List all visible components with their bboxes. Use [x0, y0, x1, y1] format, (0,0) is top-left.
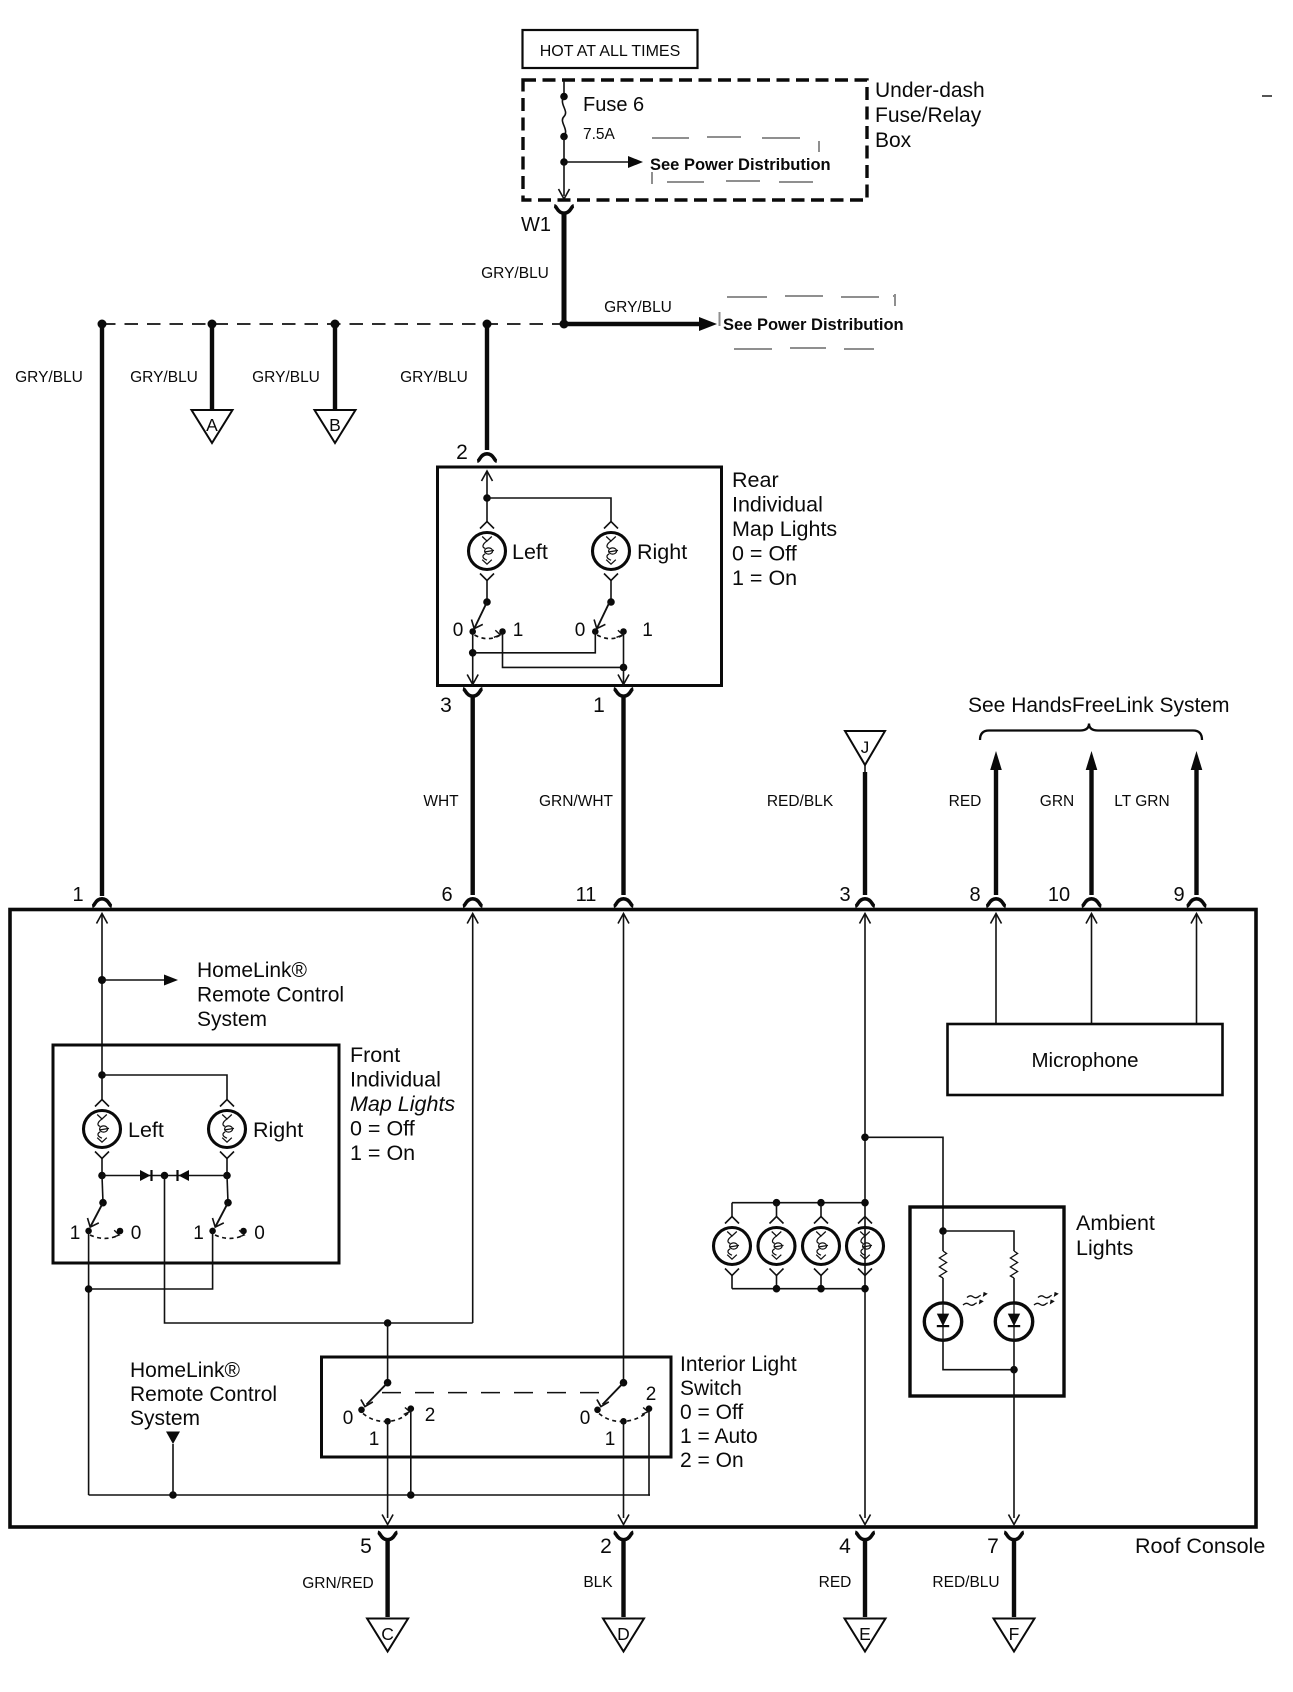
- svg-text:11: 11: [576, 884, 597, 906]
- svg-text:10: 10: [1048, 884, 1070, 906]
- node: [817, 1199, 825, 1207]
- wire GRN/WHT: [539, 696, 624, 895]
- svg-text:Microphone: Microphone: [1031, 1049, 1138, 1072]
- svg-text:LT GRN: LT GRN: [1114, 793, 1169, 810]
- scan remnants gray dashed box: [720, 294, 897, 349]
- connector J: [845, 731, 885, 765]
- pin 3 entry arrow: [860, 914, 871, 924]
- svg-text:RED/BLK: RED/BLK: [767, 793, 834, 810]
- connector B: [315, 410, 356, 443]
- svg-text:2: 2: [425, 1405, 436, 1426]
- svg-text:J: J: [861, 738, 870, 757]
- pin 7 exit arrow: [1009, 1515, 1020, 1525]
- lamp front left: [84, 1100, 121, 1159]
- lamp cluster bulb 2: [758, 1217, 795, 1276]
- svg-text:GRN/RED: GRN/RED: [302, 1575, 373, 1592]
- svg-text:C: C: [381, 1624, 394, 1644]
- lamp front right: [209, 1100, 246, 1159]
- connector pin 10 roof console: [1048, 884, 1101, 906]
- connector pin 11 roof console: [576, 884, 634, 906]
- node: [817, 1285, 825, 1293]
- svg-text:RED: RED: [949, 793, 982, 810]
- ambient lights box: [910, 1207, 1064, 1396]
- svg-text:GRY/BLU: GRY/BLU: [400, 369, 468, 386]
- svg-text:1: 1: [72, 884, 83, 906]
- wire off contacts to pin 3: [472, 632, 474, 685]
- wire pin6 riser: [472, 914, 474, 1324]
- wire left contact 2 to homelink bus: [410, 1409, 412, 1495]
- svg-text:Roof Console: Roof Console: [1135, 1534, 1265, 1558]
- wire pin8 to microphone: [995, 914, 997, 1025]
- svg-text:HomeLink®: HomeLink®: [197, 959, 308, 982]
- pin 11 entry arrow: [618, 914, 629, 924]
- svg-text:6: 6: [441, 884, 452, 906]
- pin 1 entry arrow: [97, 914, 108, 924]
- wire from node down to left switch pivot: [387, 1323, 389, 1383]
- wire stub: [731, 1276, 733, 1289]
- svg-text:1: 1: [70, 1223, 81, 1244]
- wire RED: [819, 1540, 865, 1617]
- wire front-left 1 contact down: [88, 1231, 90, 1495]
- pin 6 entry arrow: [467, 914, 478, 924]
- wire GRY/BLU drop 1: [15, 324, 102, 896]
- wire homelink bus: [89, 1494, 650, 1496]
- svg-text:1: 1: [605, 1429, 616, 1450]
- wire diode center down and over to pin6 riser: [165, 1176, 473, 1324]
- node: [161, 1172, 169, 1180]
- pin 9 entry arrow: [1191, 914, 1202, 924]
- svg-text:1: 1: [593, 694, 605, 717]
- connector C: [367, 1619, 408, 1652]
- pin 5 exit arrow: [382, 1515, 393, 1525]
- node: [483, 494, 491, 502]
- svg-text:0 = Off: 0 = Off: [680, 1401, 743, 1424]
- wire GRN/RED: [302, 1540, 387, 1617]
- wire: [563, 81, 565, 97]
- svg-text:RED/BLU: RED/BLU: [932, 1574, 999, 1591]
- connector pin 9 roof console: [1173, 884, 1206, 906]
- node: [861, 1134, 869, 1142]
- wire BLK: [583, 1540, 623, 1617]
- wire RED/BLK: [767, 765, 865, 895]
- switch interior left arm: [361, 1383, 388, 1407]
- wire: [563, 162, 565, 196]
- LED left emission arrows: [963, 1292, 988, 1305]
- wire on contacts to pin 1: [503, 632, 624, 668]
- node: [560, 158, 568, 166]
- svg-text:W1: W1: [521, 214, 551, 236]
- svg-text:2 = On: 2 = On: [680, 1449, 744, 1472]
- wire pin11 riser: [623, 914, 625, 1383]
- svg-text:2: 2: [456, 441, 468, 464]
- resistor left: [939, 1251, 946, 1278]
- svg-text:GRY/BLU: GRY/BLU: [604, 299, 672, 316]
- connector E: [845, 1619, 886, 1652]
- svg-text:See HandsFreeLink System: See HandsFreeLink System: [968, 694, 1229, 717]
- svg-text:1 = Auto: 1 = Auto: [680, 1425, 758, 1448]
- node: [773, 1199, 781, 1207]
- svg-text:0: 0: [254, 1223, 265, 1244]
- connector pin 8 roof console: [969, 884, 1005, 906]
- wire RED with up arrow: [949, 751, 1002, 895]
- svg-text:0 = Off: 0 = Off: [350, 1117, 415, 1141]
- svg-text:1 = On: 1 = On: [350, 1141, 415, 1165]
- pin 4 exit arrow: [860, 1515, 871, 1525]
- svg-text:B: B: [329, 415, 341, 435]
- under-dash fuse/relay box: [523, 80, 867, 200]
- wire: [610, 581, 612, 603]
- pin 3 exit arrow: [467, 675, 478, 685]
- arrow to homelink remote control system: [102, 975, 178, 986]
- pin 2 exit arrow: [618, 1515, 629, 1525]
- dashed gang line between switches: [382, 1392, 599, 1394]
- switch interior left pivot: [384, 1379, 392, 1387]
- svg-text:0: 0: [343, 1408, 354, 1429]
- dashed bus wire GRY/BLU: [102, 323, 564, 325]
- svg-text:8: 8: [969, 884, 980, 906]
- node: [939, 1227, 947, 1235]
- switch front right arm: [213, 1176, 232, 1228]
- svg-text:0: 0: [131, 1223, 142, 1244]
- svg-text:RED: RED: [819, 1574, 852, 1591]
- svg-text:Fuse/Relay: Fuse/Relay: [875, 104, 982, 127]
- node: [861, 1199, 869, 1207]
- node: [331, 320, 340, 329]
- svg-text:Map Lights: Map Lights: [732, 517, 837, 541]
- resistor right: [1010, 1251, 1017, 1278]
- node: [483, 598, 491, 606]
- wire: [473, 632, 596, 653]
- wire diode bus: [102, 1175, 227, 1177]
- microphone box: [948, 1024, 1223, 1095]
- svg-text:4: 4: [839, 1535, 851, 1558]
- svg-text:Left: Left: [512, 540, 548, 564]
- pin 2 entry arrow: [482, 471, 493, 481]
- connector pin 1 roof console: [72, 884, 111, 906]
- svg-text:3: 3: [440, 694, 452, 717]
- wire LT GRN with up arrow: [1114, 751, 1202, 895]
- lamp rear left: [469, 522, 506, 581]
- svg-text:0 = Off: 0 = Off: [732, 542, 797, 566]
- stray scan mark top right: [1262, 95, 1272, 97]
- label Under-dash Fuse/Relay Box: [875, 79, 985, 152]
- svg-text:GRY/BLU: GRY/BLU: [481, 265, 549, 282]
- svg-text:Remote Control: Remote Control: [130, 1383, 277, 1406]
- svg-text:HomeLink®: HomeLink®: [130, 1359, 241, 1382]
- switch rear right contacts: [575, 620, 653, 641]
- wire branch to ambient lights: [865, 1137, 943, 1231]
- svg-text:Front: Front: [350, 1043, 400, 1067]
- label ambient lights: [1076, 1211, 1155, 1260]
- interior light switch box: [322, 1357, 672, 1457]
- wire: [226, 1159, 228, 1176]
- lamp cluster bulb 1: [714, 1217, 751, 1276]
- switch interior left contacts: [343, 1405, 436, 1450]
- svg-text:0: 0: [453, 620, 464, 641]
- front individual map lights box: [53, 1045, 339, 1263]
- wire stub: [776, 1203, 778, 1217]
- node: [98, 1172, 106, 1180]
- node: [169, 1491, 177, 1499]
- svg-text:Rear: Rear: [732, 468, 779, 492]
- wire: [563, 137, 565, 163]
- fuse F6 element: [562, 97, 565, 137]
- connector pin 6 roof console: [441, 884, 482, 906]
- roof console box: [10, 910, 1256, 1528]
- svg-text:E: E: [859, 1624, 871, 1644]
- wire: [487, 498, 611, 522]
- svg-text:See Power Distribution: See Power Distribution: [723, 316, 904, 334]
- LED right emission arrows: [1034, 1292, 1059, 1305]
- wire: [942, 1231, 944, 1251]
- wire stub: [820, 1276, 822, 1289]
- wire pin10 to microphone: [1091, 914, 1093, 1025]
- svg-text:1: 1: [642, 620, 653, 641]
- wire GRN with up arrow: [1040, 751, 1098, 895]
- svg-text:Ambient: Ambient: [1076, 1211, 1155, 1235]
- svg-text:0: 0: [580, 1408, 591, 1429]
- node: [407, 1491, 415, 1499]
- pin 8 entry arrow: [991, 914, 1002, 924]
- switch rear right arm: [594, 602, 610, 629]
- svg-text:WHT: WHT: [423, 793, 459, 810]
- diode D1: [140, 1170, 152, 1181]
- wire LED return to pin 7: [1013, 1340, 1015, 1518]
- diode D2: [178, 1170, 190, 1181]
- wire tie of 1 contacts: [89, 1231, 213, 1289]
- connector pin 3 roof console: [839, 884, 874, 906]
- svg-text:7.5A: 7.5A: [583, 126, 616, 143]
- pin 1 exit arrow: [618, 675, 629, 685]
- svg-text:HOT AT ALL TIMES: HOT AT ALL TIMES: [540, 43, 681, 60]
- switch rear left arm: [472, 602, 488, 629]
- svg-text:Interior Light: Interior Light: [680, 1353, 797, 1376]
- switch front left arm: [88, 1176, 107, 1228]
- svg-text:Right: Right: [253, 1118, 303, 1142]
- switch rear left contacts: [453, 620, 524, 641]
- wire pin3 main drop: [864, 914, 866, 1519]
- connector W1: [554, 206, 574, 213]
- LED right: [995, 1303, 1032, 1340]
- svg-text:GRN/WHT: GRN/WHT: [539, 793, 614, 810]
- svg-text:GRY/BLU: GRY/BLU: [130, 369, 198, 386]
- wire stub: [731, 1203, 733, 1217]
- switch interior right contacts: [580, 1384, 657, 1450]
- svg-text:Box: Box: [875, 129, 912, 152]
- node: [384, 1319, 392, 1327]
- node: [1010, 1366, 1018, 1374]
- thick arrow wire to power distribution: [564, 299, 904, 334]
- svg-text:2: 2: [600, 1535, 612, 1558]
- hot at all times label box: [523, 30, 698, 68]
- wire: [943, 1231, 1014, 1251]
- wire: [102, 1075, 227, 1100]
- label homelink remote control system: [197, 959, 344, 1031]
- pin 10 entry arrow: [1086, 914, 1097, 924]
- connector A: [192, 410, 233, 443]
- node: [469, 649, 477, 657]
- node: [560, 93, 568, 101]
- node: [607, 598, 615, 606]
- svg-text:1: 1: [369, 1429, 380, 1450]
- svg-text:Right: Right: [637, 540, 687, 564]
- label homelink remote control system lower: [130, 1359, 277, 1430]
- svg-text:A: A: [206, 415, 218, 435]
- connector D: [603, 1619, 644, 1652]
- svg-text:Individual: Individual: [350, 1068, 441, 1092]
- svg-text:GRY/BLU: GRY/BLU: [15, 369, 83, 386]
- wire right contact 2 to homelink bus: [649, 1409, 650, 1495]
- wire stub: [820, 1203, 822, 1217]
- wire stub: [776, 1276, 778, 1289]
- switch front right contacts: [193, 1223, 265, 1244]
- svg-text:1 = On: 1 = On: [732, 566, 797, 590]
- svg-text:5: 5: [360, 1535, 372, 1558]
- svg-text:Lights: Lights: [1076, 1236, 1133, 1260]
- svg-text:Individual: Individual: [732, 493, 823, 517]
- wire: [486, 581, 488, 603]
- lamp cluster bulb 4: [847, 1217, 884, 1276]
- svg-text:D: D: [617, 1624, 630, 1644]
- svg-text:See Power Distribution: See Power Distribution: [650, 156, 831, 174]
- label rear individual map lights: [732, 468, 837, 590]
- svg-text:System: System: [130, 1407, 200, 1430]
- connector pin 3: [440, 689, 482, 717]
- wire pin9 to microphone: [1196, 914, 1198, 1025]
- label front individual map lights: [350, 1043, 455, 1165]
- svg-text:3: 3: [839, 884, 850, 906]
- wire GRY/BLU drop to connector B: [252, 324, 335, 409]
- wire: [623, 632, 625, 685]
- node: [98, 976, 106, 984]
- svg-text:7: 7: [987, 1535, 999, 1558]
- scan remnants gray dashed box: [652, 137, 819, 184]
- wire GRY/BLU from fuse to bus: [562, 212, 567, 322]
- connector pin 7 bottom: [987, 1532, 1024, 1558]
- connector pin 2 bottom: [600, 1532, 633, 1558]
- lamp cluster bulb 3: [803, 1217, 840, 1276]
- lamp cluster top bus: [732, 1202, 865, 1204]
- svg-text:0: 0: [575, 620, 586, 641]
- arrow to see power distribution: [564, 156, 831, 174]
- wire: [486, 471, 488, 522]
- node: [98, 320, 107, 329]
- svg-text:GRY/BLU: GRY/BLU: [252, 369, 320, 386]
- svg-text:9: 9: [1173, 884, 1184, 906]
- node: [861, 1285, 869, 1293]
- wire GRY/BLU drop to rear map lights pin 2: [400, 324, 487, 450]
- lamp rear right: [593, 522, 630, 581]
- svg-text:1: 1: [513, 620, 524, 641]
- node: [98, 1071, 106, 1079]
- lamp cluster bottom bus: [732, 1288, 865, 1290]
- wire: [942, 1278, 944, 1303]
- svg-text:Remote Control: Remote Control: [197, 984, 344, 1007]
- node: [483, 320, 492, 329]
- connector pin 1: [593, 689, 633, 717]
- svg-text:Fuse 6: Fuse 6: [583, 94, 644, 116]
- wire right contact 1 to pin 2: [623, 1421, 625, 1518]
- label interior light switch: [680, 1353, 797, 1472]
- homelink system arrow terminal: [166, 1432, 180, 1496]
- wire: [1013, 1278, 1015, 1303]
- wire RED/BLU: [932, 1540, 1014, 1617]
- node: [85, 1285, 93, 1293]
- wire GRY/BLU drop to connector A: [130, 324, 212, 409]
- brace: [980, 724, 1202, 741]
- wire WHT: [423, 696, 472, 895]
- LED left: [924, 1303, 961, 1340]
- wire: [101, 1159, 103, 1176]
- wire left contact 1 to pin 5: [387, 1421, 389, 1518]
- switch front left contacts: [70, 1223, 142, 1244]
- svg-text:2: 2: [646, 1384, 657, 1405]
- connector pin 5 bottom: [360, 1532, 397, 1558]
- connector pin 4 bottom: [839, 1532, 875, 1558]
- svg-text:System: System: [197, 1008, 267, 1031]
- wire: [943, 1340, 1014, 1369]
- switch interior right pivot: [620, 1379, 628, 1387]
- svg-text:GRN: GRN: [1040, 793, 1074, 810]
- wire pin1 to front map lights: [101, 914, 103, 1101]
- node: [560, 320, 569, 329]
- svg-text:Switch: Switch: [680, 1377, 742, 1400]
- switch interior right arm: [597, 1383, 624, 1407]
- connector arrow at fuse box exit: [559, 189, 570, 199]
- node: [208, 320, 217, 329]
- node: [773, 1285, 781, 1293]
- fuse F6 value label: [583, 94, 644, 143]
- node: [560, 133, 568, 141]
- node: [223, 1172, 231, 1180]
- svg-text:BLK: BLK: [583, 1574, 613, 1591]
- svg-text:Under-dash: Under-dash: [875, 79, 985, 102]
- connector F: [994, 1619, 1035, 1652]
- node: [620, 664, 628, 672]
- svg-text:F: F: [1009, 1624, 1020, 1644]
- rear individual map lights box: [438, 467, 722, 686]
- connector pin 2 rear map lights: [456, 441, 497, 464]
- svg-text:1: 1: [193, 1223, 204, 1244]
- svg-text:Map Lights: Map Lights: [350, 1092, 455, 1116]
- svg-text:Left: Left: [128, 1118, 164, 1142]
